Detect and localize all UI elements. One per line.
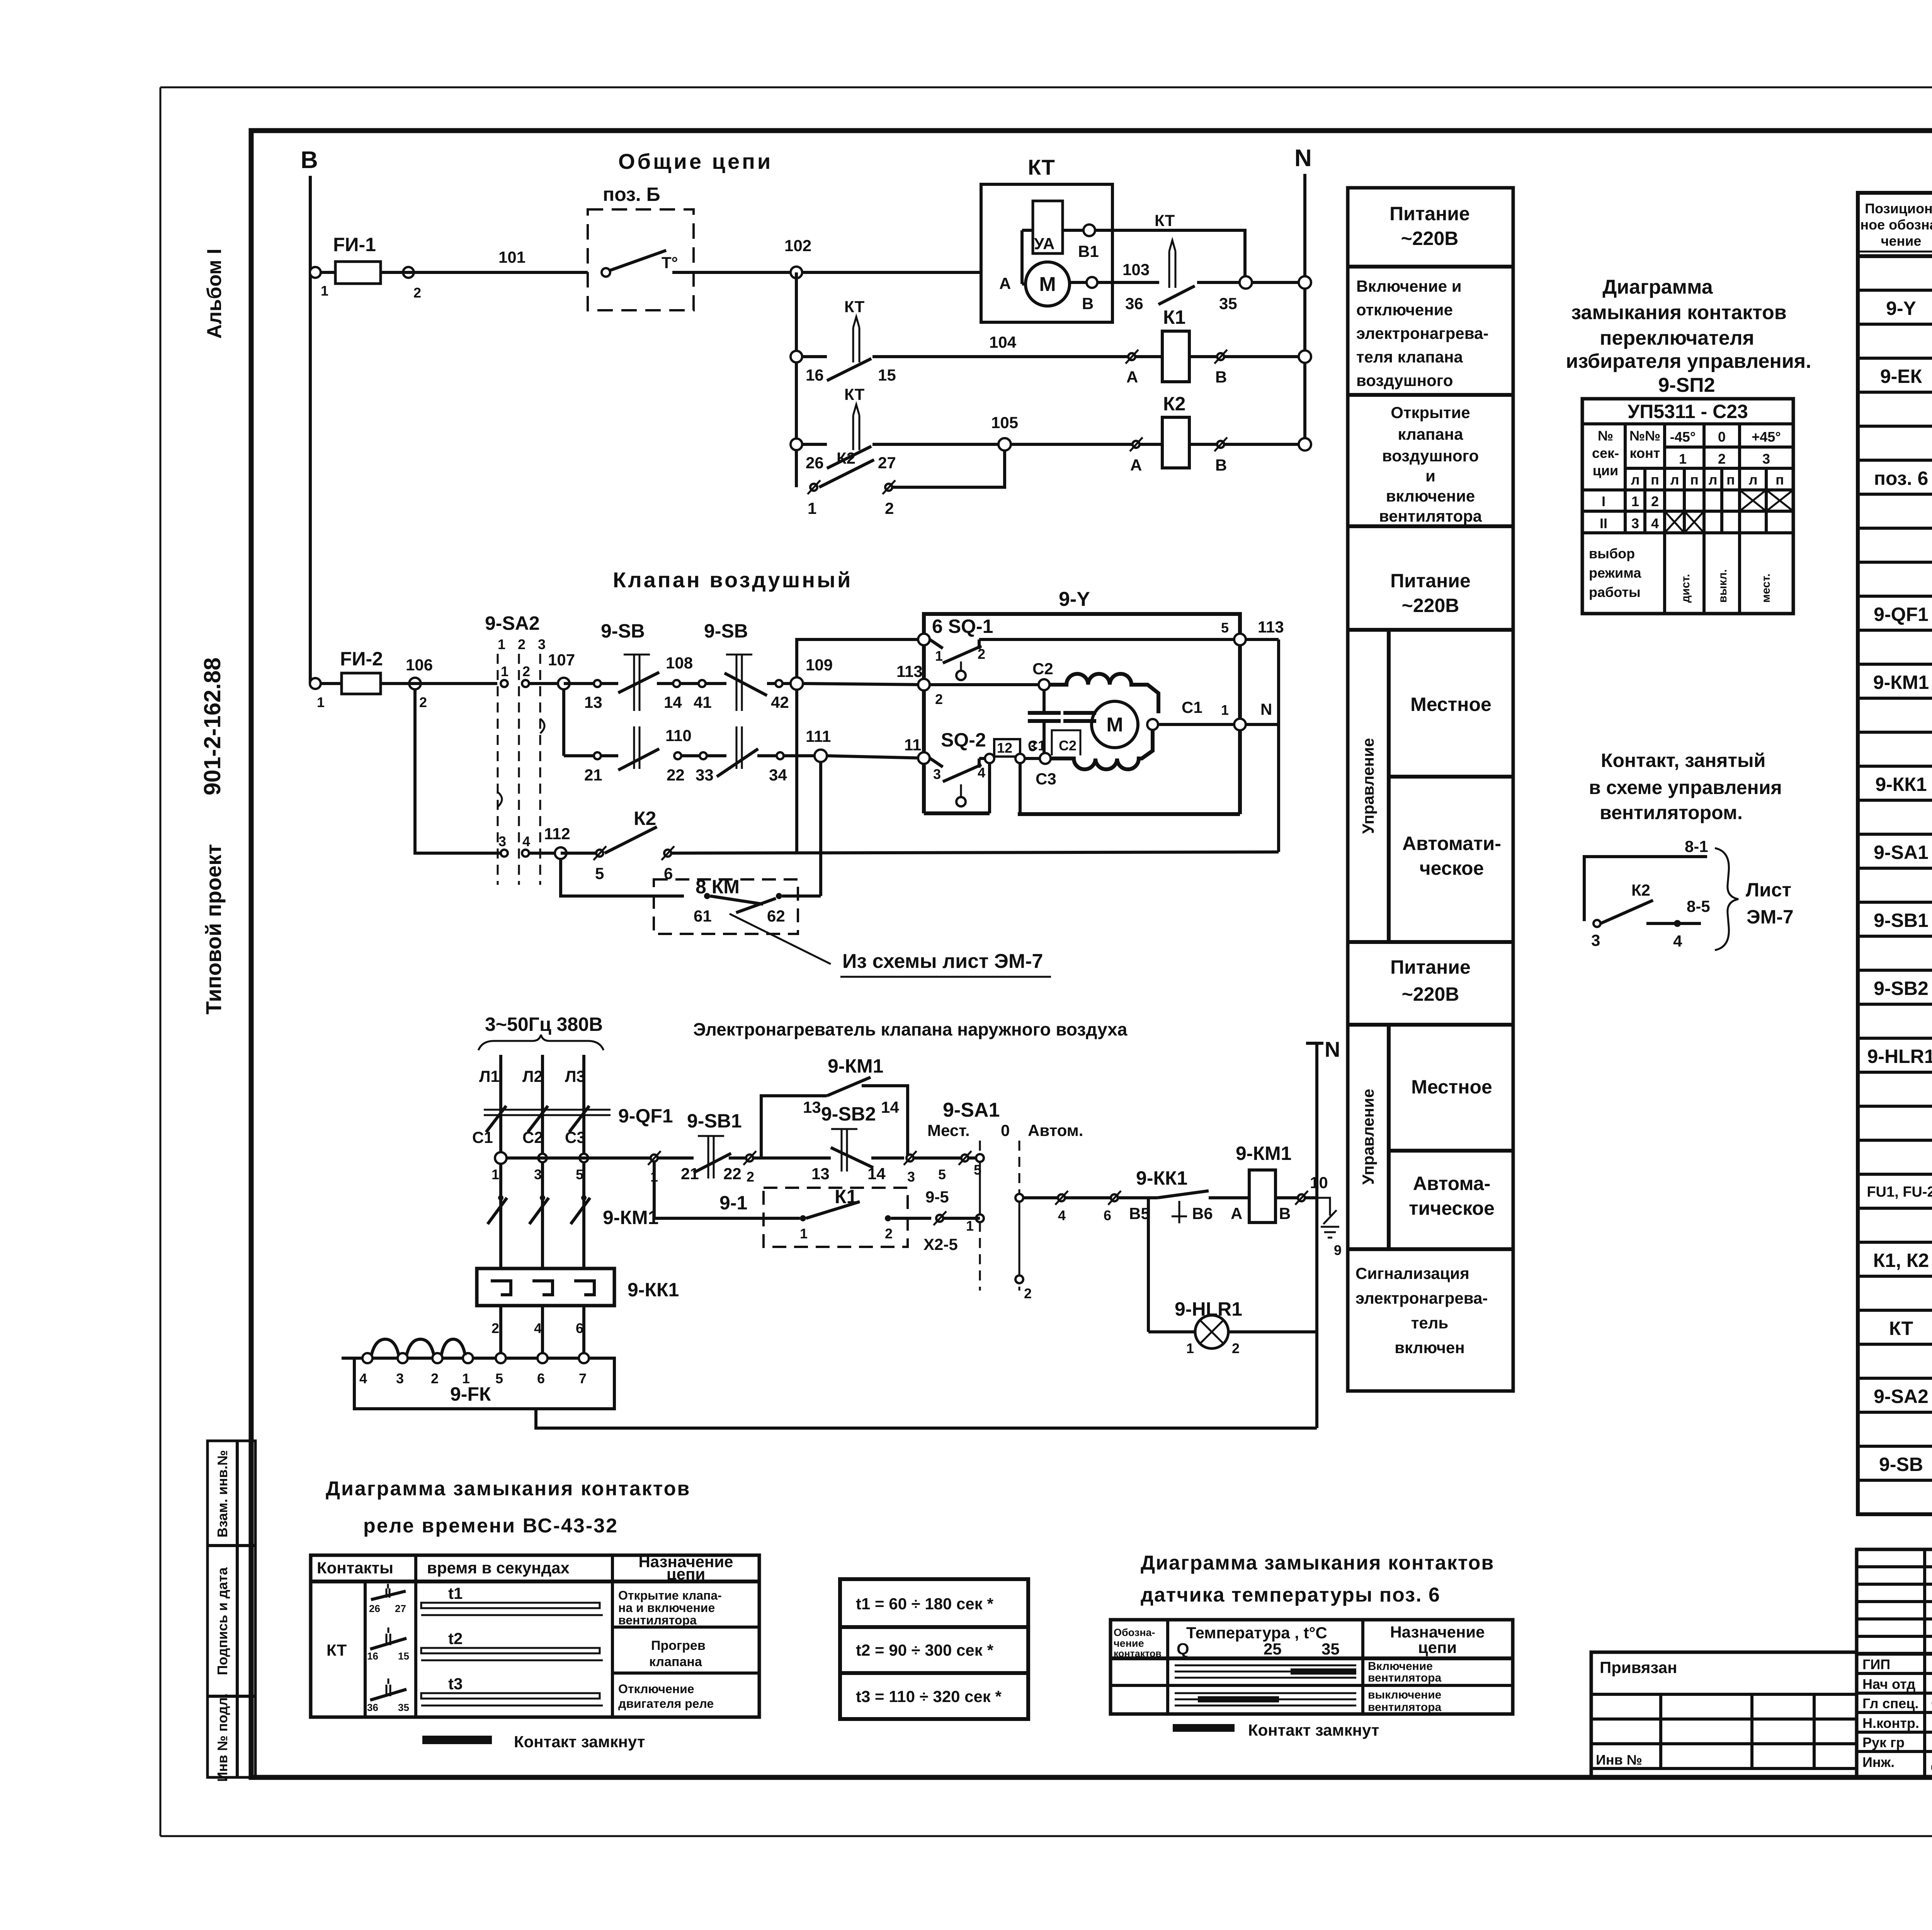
svg-text:9-SВ1: 9-SВ1: [1874, 910, 1929, 931]
contactor coil 9-KM1: [1229, 1143, 1298, 1223]
wire row 9-1: [654, 1161, 800, 1218]
diagram title: замыкание контактов переключателя: [1566, 276, 1811, 396]
svg-text:t2: t2: [448, 1629, 463, 1648]
svg-text:отключение: отключение: [1356, 301, 1453, 319]
svg-text:6: 6: [537, 1371, 545, 1386]
svg-text:конт: конт: [1630, 445, 1660, 461]
svg-text:12: 12: [997, 740, 1012, 756]
svg-text:Температура , t°С: Температура , t°С: [1186, 1624, 1327, 1642]
svg-text:3~50Гц 380В: 3~50Гц 380В: [485, 1013, 603, 1035]
svg-text:А: А: [999, 274, 1011, 292]
svg-text:контактов: контактов: [1114, 1648, 1162, 1659]
svg-text:1: 1: [1679, 451, 1687, 467]
parts list row 7: поз. 6: [1874, 468, 1932, 489]
wire 111 down to KM contact: [819, 762, 822, 896]
svg-text:9-QF1: 9-QF1: [1874, 604, 1929, 625]
svg-text:35: 35: [1219, 294, 1237, 313]
svg-text:21: 21: [681, 1165, 699, 1183]
svg-text:9-SА1: 9-SА1: [1874, 842, 1929, 863]
svg-text:108: 108: [666, 654, 693, 672]
svg-text:Включение: Включение: [1368, 1660, 1433, 1673]
svg-text:~220В: ~220В: [1401, 228, 1459, 249]
margin stamp boxes: [207, 1441, 255, 1782]
svg-text:Питание: Питание: [1390, 956, 1471, 978]
KT motor M: [1026, 262, 1087, 306]
contact K2 row 112: [561, 808, 1279, 883]
plug contact 2: [743, 1151, 815, 1185]
svg-text:9-SВ2: 9-SВ2: [821, 1103, 876, 1125]
relay coil K1: [1135, 306, 1305, 382]
svg-text:26: 26: [806, 454, 824, 472]
svg-text:106: 106: [406, 656, 433, 674]
heater box 9-FK: [342, 1339, 614, 1409]
svg-text:Л2: Л2: [522, 1067, 543, 1085]
svg-text:2: 2: [1232, 1340, 1240, 1356]
node 2: [403, 267, 414, 278]
aux contact K2 row: [808, 449, 1005, 517]
selector switch 9-SA2: [485, 612, 564, 885]
second row contact 21: [564, 726, 659, 784]
svg-text:27: 27: [395, 1603, 406, 1614]
svg-text:3: 3: [498, 833, 506, 849]
svg-text:9-КМ1: 9-КМ1: [1873, 672, 1929, 693]
signature names: [1862, 1656, 1932, 1770]
svg-text:В5: В5: [1129, 1204, 1150, 1223]
time bar t2: [421, 1629, 603, 1660]
svg-text:Диаграмма замыкания контакт: Диаграмма замыкания контактов: [1141, 1552, 1494, 1574]
svg-text:В: В: [301, 147, 318, 173]
svg-text:Подпись и дата: Подпись и дата: [214, 1567, 230, 1675]
svg-text:109: 109: [806, 656, 833, 674]
svg-text:+45°: +45°: [1752, 429, 1781, 445]
button 9-SB1: [687, 1110, 746, 1183]
svg-text:дист.: дист.: [1679, 574, 1692, 603]
svg-text:С1: С1: [472, 1128, 493, 1146]
selector switch 9-SA1: [927, 1099, 1083, 1301]
svg-text:5: 5: [1221, 620, 1229, 636]
svg-text:работы: работы: [1589, 584, 1641, 600]
wire 107 down to second row: [562, 690, 565, 756]
svg-text:Инв №: Инв №: [1596, 1752, 1642, 1768]
svg-text:Альбом I: Альбом I: [203, 248, 226, 338]
svg-text:К2: К2: [1631, 881, 1650, 899]
svg-text:9-Y: 9-Y: [1059, 588, 1090, 610]
wire 105 to coil K2: [1011, 443, 1134, 446]
plug contact A row K1: [1126, 350, 1138, 386]
svg-text:ГИП: ГИП: [1862, 1656, 1890, 1672]
parts list row 22: 9-SВ2: [1874, 978, 1932, 999]
svg-text:А: А: [1231, 1204, 1242, 1223]
svg-text:16: 16: [367, 1650, 378, 1662]
function cell: Автоматическое (1): [1402, 833, 1501, 879]
svg-text:9-КМ1: 9-КМ1: [828, 1055, 883, 1077]
node C2: [1032, 660, 1053, 690]
plug contact 1: [648, 1151, 661, 1185]
svg-text:реле времени ВС-43-32: реле времени ВС-43-32: [363, 1515, 618, 1537]
svg-text:клапана: клапана: [1398, 425, 1463, 443]
svg-text:2: 2: [747, 1169, 754, 1185]
svg-text:9-КМ1: 9-КМ1: [1236, 1143, 1291, 1164]
node 1 / N right: [1221, 700, 1279, 730]
wire SA2 row2 to node 112: [529, 852, 561, 855]
node 1 on bus B: [310, 267, 321, 278]
svg-text:9-SП2: 9-SП2: [1658, 374, 1715, 396]
svg-text:датчика температуры поз. 6: датчика температуры поз. 6: [1141, 1584, 1440, 1606]
parts list row 16: 9-КК1: [1875, 774, 1932, 795]
parts list row 24: 9-HLR1: [1867, 1046, 1932, 1067]
svg-text:t2 = 90 ÷ 300 сек *: t2 = 90 ÷ 300 сек *: [856, 1641, 993, 1659]
svg-text:цепи: цепи: [1418, 1638, 1457, 1656]
svg-text:К2: К2: [634, 808, 656, 829]
svg-text:воздушного: воздушного: [1382, 447, 1479, 465]
svg-text:сек-: сек-: [1592, 445, 1619, 461]
svg-text:4: 4: [522, 833, 530, 849]
svg-text:0: 0: [1001, 1121, 1010, 1139]
svg-text:8-1: 8-1: [1685, 837, 1708, 855]
svg-text:включен: включен: [1395, 1338, 1464, 1357]
plug contact B row K1: [1214, 350, 1227, 386]
phase line Л1: [479, 1055, 501, 1358]
svg-text:8-5: 8-5: [1687, 897, 1710, 915]
svg-text:9-SВ: 9-SВ: [704, 620, 748, 642]
svg-text:10: 10: [1310, 1173, 1328, 1192]
second row node 110 / contacts 22 33: [665, 726, 815, 784]
svg-text:1: 1: [800, 1226, 808, 1241]
svg-text:клапана: клапана: [649, 1655, 702, 1669]
terminal B1: [1078, 224, 1099, 260]
svg-text:Из схемы лист ЭМ-7: Из схемы лист ЭМ-7: [842, 950, 1043, 973]
svg-text:С1: С1: [1182, 698, 1202, 716]
node 1 on bus B circuit B: [310, 678, 321, 689]
wire node109 up to SQ-1 row: [797, 639, 924, 677]
svg-text:С2: С2: [1032, 660, 1053, 678]
svg-text:15: 15: [878, 366, 896, 384]
svg-text:Клапан воздушный: Клапан воздушный: [613, 568, 852, 592]
svg-text:13: 13: [584, 693, 602, 711]
node 2 terminal left: [896, 662, 1039, 707]
fan interlock contact K2 diagram: [1584, 837, 1710, 950]
node 2 / wire 106: [381, 656, 497, 710]
wire 13 to SB2: [811, 1158, 831, 1183]
svg-text:N: N: [1325, 1037, 1340, 1061]
svg-text:21: 21: [584, 766, 602, 784]
svg-text:Позицион-: Позицион-: [1865, 201, 1932, 216]
svg-text:112: 112: [544, 825, 570, 843]
svg-text:2: 2: [935, 691, 943, 707]
svg-text:А: А: [1126, 368, 1138, 386]
KT contact symbol row1 (26-27): [369, 1584, 406, 1614]
time relay diagram table: [311, 1553, 759, 1717]
svg-text:42: 42: [771, 693, 789, 711]
svg-text:Открытие клапа-: Открытие клапа-: [618, 1588, 722, 1602]
svg-text:1: 1: [317, 694, 325, 710]
svg-text:Нач отд: Нач отд: [1862, 1676, 1915, 1692]
svg-text:5: 5: [576, 1167, 583, 1182]
svg-text:36: 36: [1125, 294, 1143, 313]
svg-text:Контакт, занятый: Контакт, занятый: [1601, 750, 1765, 771]
parts list table grid: [1858, 193, 1932, 1514]
svg-text:9-HLR1: 9-HLR1: [1867, 1046, 1932, 1067]
svg-text:111: 111: [806, 727, 831, 745]
svg-text:9-КК1: 9-КК1: [1136, 1167, 1187, 1189]
function cell: Включение и отключение электронагревателя: [1356, 277, 1488, 389]
svg-text:Контакт замкнут: Контакт замкнут: [514, 1733, 645, 1751]
svg-text:вентилятора: вентилятора: [1368, 1672, 1441, 1684]
svg-text:11: 11: [904, 736, 921, 754]
svg-text:на и включение: на и включение: [618, 1601, 715, 1615]
svg-text:Мест.: Мест.: [927, 1121, 970, 1139]
temperature sensor diagram table: [1111, 1620, 1513, 1714]
svg-text:9-КК1: 9-КК1: [628, 1279, 679, 1301]
bus B: [301, 147, 318, 684]
svg-text:9-SB: 9-SB: [1879, 1454, 1923, 1475]
svg-text:901-2-162.88: 901-2-162.88: [199, 658, 225, 796]
svg-text:ции: ции: [1593, 463, 1618, 478]
svg-text:вентилятором.: вентилятором.: [1600, 802, 1743, 823]
return wire bottom: [536, 1409, 1317, 1428]
svg-text:время в секундах: время в секундах: [427, 1559, 570, 1577]
node on dropdown row K2: [791, 439, 802, 450]
svg-text:II: II: [1600, 515, 1607, 531]
node 5 / 113 top right: [1221, 618, 1284, 645]
parts list header texts: [1860, 201, 1932, 249]
plug contact A row K2: [1130, 437, 1143, 474]
svg-text:13: 13: [803, 1098, 821, 1116]
control tap wire from 1: [507, 1156, 651, 1160]
svg-text:4: 4: [1673, 932, 1682, 950]
svg-text:35: 35: [398, 1702, 409, 1713]
svg-text:Автомати-: Автомати-: [1402, 833, 1501, 854]
svg-text:Местное: Местное: [1410, 694, 1492, 715]
thermal relay 9-KK1: [477, 1269, 679, 1336]
svg-text:110: 110: [665, 726, 692, 745]
time relay diagram title: [326, 1478, 690, 1537]
function cell: Сигнализация: [1355, 1264, 1488, 1357]
svg-text:Q: Q: [1177, 1640, 1189, 1658]
svg-text:Лист: Лист: [1746, 879, 1791, 901]
wire 105: [872, 413, 1018, 444]
svg-text:л: л: [1709, 472, 1718, 488]
KT contact symbol row3 (36-35): [367, 1678, 409, 1713]
svg-text:Питание: Питание: [1389, 203, 1470, 224]
capacitors C1 C2: [1028, 690, 1096, 758]
svg-text:N: N: [1294, 145, 1312, 172]
svg-text:В: В: [1215, 456, 1227, 474]
svg-text:№№: №№: [1629, 428, 1660, 444]
wire + 21: [658, 1158, 699, 1183]
time bar t3: [421, 1675, 603, 1706]
terminal B: [1082, 277, 1097, 313]
svg-text:Взам. инв.№: Взам. инв.№: [214, 1450, 230, 1537]
svg-text:6: 6: [576, 1320, 583, 1336]
svg-text:6 SQ-1: 6 SQ-1: [932, 616, 993, 637]
parts list row 11: 9-QF1: [1874, 604, 1932, 625]
svg-text:С3: С3: [565, 1128, 586, 1146]
svg-text:101: 101: [498, 248, 526, 266]
wire 101: [381, 248, 588, 272]
svg-text:режима: режима: [1589, 565, 1641, 581]
note: Из схемы лист ЭМ-7: [730, 914, 1051, 977]
svg-text:34: 34: [769, 766, 787, 784]
svg-text:33: 33: [696, 766, 714, 784]
svg-text:1: 1: [321, 283, 328, 299]
wire to node 102: [694, 271, 981, 274]
svg-text:двигателя реле: двигателя реле: [618, 1697, 714, 1711]
svg-text:25: 25: [1264, 1640, 1282, 1658]
svg-text:5: 5: [938, 1167, 946, 1182]
svg-text:3: 3: [1029, 738, 1036, 754]
node 109: [791, 656, 833, 690]
svg-text:SQ-2: SQ-2: [941, 729, 986, 751]
svg-text:9-QF1: 9-QF1: [618, 1105, 673, 1127]
svg-text:113: 113: [896, 662, 923, 680]
svg-text:1: 1: [1631, 493, 1639, 509]
svg-text:3: 3: [933, 766, 941, 782]
svg-text:Включение и: Включение и: [1356, 277, 1462, 295]
svg-text:В: В: [1215, 368, 1227, 386]
svg-text:2: 2: [1651, 493, 1659, 509]
svg-text:К2: К2: [1163, 393, 1185, 415]
svg-text:3: 3: [907, 1169, 915, 1185]
svg-text:14: 14: [664, 693, 682, 711]
wire 112 down to KM box: [561, 859, 684, 896]
function cell: Открытие клапана воздушного: [1379, 403, 1482, 525]
legend: контакт замкнут (center): [1173, 1721, 1379, 1739]
svg-text:чение: чение: [1881, 233, 1922, 249]
svg-text:X2-5: X2-5: [923, 1235, 958, 1253]
svg-text:Общие цепи: Общие цепи: [618, 149, 773, 173]
svg-text:Н.контр.: Н.контр.: [1862, 1715, 1919, 1731]
function cell: Питание 220В (2): [1390, 570, 1471, 616]
wire node109 down to K2 row: [795, 690, 798, 852]
svg-text:вентилятора: вентилятора: [1368, 1701, 1441, 1714]
plug contact 9-5 / X2-5: [923, 1188, 980, 1253]
svg-text:ное обозна-: ное обозна-: [1860, 217, 1932, 233]
SQ-2 limit switch: [904, 729, 986, 806]
svg-text:л: л: [1631, 472, 1640, 488]
circuit breaker 9-QF1: [472, 1105, 673, 1146]
wire from B1 to junction: [1095, 230, 1245, 282]
svg-text:УП5311 - С23: УП5311 - С23: [1628, 401, 1748, 422]
svg-text:в схеме управления: в схеме управления: [1589, 777, 1782, 798]
svg-text:-45°: -45°: [1670, 429, 1696, 445]
function cell: Питание 220В (3): [1390, 956, 1471, 1005]
phase line Л3: [565, 1055, 585, 1358]
svg-text:К2: К2: [837, 449, 855, 467]
plug contact 3: [904, 1151, 962, 1185]
svg-text:Диаграмма: Диаграмма: [1602, 276, 1713, 298]
svg-text:14: 14: [881, 1098, 899, 1116]
svg-text:2: 2: [1718, 451, 1726, 467]
svg-text:ЭМ-7: ЭМ-7: [1747, 906, 1794, 928]
svg-text:41: 41: [694, 693, 712, 711]
svg-text:22: 22: [723, 1165, 742, 1183]
svg-text:5: 5: [495, 1371, 503, 1386]
motor M of actuator: [1092, 701, 1138, 748]
title block signature table: [1857, 1549, 1932, 1777]
svg-text:7: 7: [579, 1371, 587, 1386]
svg-text:9-SВ1: 9-SВ1: [687, 1110, 742, 1132]
note: контакт занятый в схеме: [1589, 750, 1782, 823]
svg-text:4: 4: [1058, 1207, 1066, 1223]
contactor aux contact 8 KM box: [654, 876, 821, 934]
temperature sensor поз.Б: [588, 184, 694, 310]
svg-text:ческое: ческое: [1420, 857, 1484, 879]
svg-text:3: 3: [1762, 451, 1770, 467]
plug contact 5: [959, 1151, 981, 1178]
svg-text:2: 2: [885, 499, 894, 517]
bus N (circuit A): [1294, 145, 1312, 450]
button 9-SB (right) row1: [704, 620, 791, 711]
supply label 3~50Гц 380В: [478, 1013, 604, 1050]
svg-text:9-SА2: 9-SА2: [485, 612, 540, 634]
svg-text:выбор: выбор: [1589, 546, 1635, 561]
svg-text:Местное: Местное: [1411, 1076, 1492, 1098]
wire 103 with contact KT: [1097, 211, 1246, 313]
svg-text:3: 3: [396, 1371, 404, 1386]
svg-text:2: 2: [431, 1371, 439, 1386]
svg-text:УА: УА: [1034, 235, 1054, 253]
svg-text:t3 = 110 ÷ 320 сек *: t3 = 110 ÷ 320 сек *: [856, 1687, 1002, 1706]
tap junctions 1 3 5: [492, 1152, 588, 1182]
node C3: [1036, 753, 1056, 788]
parts list row 4: 9-ЕК: [1880, 366, 1932, 387]
svg-text:4: 4: [359, 1371, 367, 1386]
svg-text:М: М: [1106, 714, 1123, 736]
svg-text:замыкания контактов: замыкания контактов: [1571, 301, 1787, 324]
svg-text:Инж.: Инж.: [1862, 1754, 1895, 1770]
relay contact K1 dashed box: [764, 1186, 931, 1247]
svg-text:102: 102: [784, 236, 811, 255]
svg-text:9-1: 9-1: [719, 1192, 747, 1214]
svg-text:Диаграмма замыкания контакто: Диаграмма замыкания контактов: [326, 1478, 690, 1500]
node on N row K2: [1299, 438, 1311, 451]
wire 111 to SQ-2 node 11: [827, 756, 924, 758]
node 105: [998, 438, 1011, 451]
svg-text:Привязан: Привязан: [1600, 1658, 1677, 1677]
svg-text:14: 14: [867, 1165, 886, 1183]
phase line Л2: [522, 1055, 543, 1358]
svg-text:Сигнализация: Сигнализация: [1355, 1264, 1469, 1282]
wire 104: [872, 333, 1129, 357]
parts list row 2: 9-Y: [1886, 298, 1932, 319]
svg-text:п: п: [1690, 472, 1699, 488]
svg-text:13: 13: [811, 1165, 830, 1183]
node junction row1: [1240, 276, 1252, 289]
svg-text:К1, К2: К1, К2: [1873, 1250, 1929, 1271]
svg-text:тель: тель: [1411, 1314, 1448, 1332]
svg-text:9-SВ: 9-SВ: [601, 620, 645, 642]
svg-text:Автома-: Автома-: [1413, 1173, 1491, 1194]
svg-text:М: М: [1039, 273, 1056, 296]
motor winding top: [1049, 674, 1158, 713]
wire FU2 node2 down to SA2 row2: [415, 689, 500, 853]
fuse FU-2: [321, 648, 383, 694]
svg-text:4: 4: [534, 1320, 542, 1336]
svg-text:теля клапана: теля клапана: [1356, 348, 1463, 366]
svg-text:t3: t3: [448, 1675, 463, 1693]
parts list row 30: К1, К2: [1873, 1250, 1932, 1271]
svg-text:и: и: [1425, 467, 1435, 485]
thermal contact 9-KK1: [1129, 1167, 1229, 1223]
svg-text:Л3: Л3: [565, 1067, 585, 1085]
sensor contact bar row2: [1175, 1689, 1441, 1714]
svg-text:К1: К1: [1163, 306, 1185, 328]
wire SA1 to contacts right: [1023, 1191, 1157, 1223]
svg-text:С2: С2: [1059, 738, 1077, 753]
svg-text:36: 36: [367, 1702, 378, 1713]
relay coil K2: [1139, 393, 1305, 468]
